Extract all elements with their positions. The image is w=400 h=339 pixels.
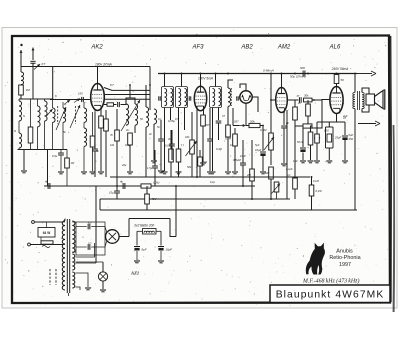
wire e2 riser: [160, 231, 162, 245]
wire IF2 bottom b: [184, 108, 186, 131]
IF3 secondary coil: [219, 89, 221, 106]
decoupling resistor 0.1M: [293, 178, 298, 189]
wire avc up: [234, 128, 236, 134]
AZ1 filament X: [109, 233, 116, 240]
svg-text:4μ: 4μ: [120, 180, 124, 184]
wire OT top: [354, 74, 356, 93]
ground IF3: [210, 172, 216, 174]
ground AL6 cath res: [314, 161, 320, 163]
wire L2 bottom: [62, 122, 64, 149]
wire B+ top link: [129, 218, 170, 220]
IF trimmer cap c: [237, 96, 239, 100]
title box: [270, 285, 390, 303]
wire AZ1 up riser: [128, 219, 130, 237]
wire pad cap: [104, 104, 107, 106]
wire r171 dn: [170, 162, 172, 177]
wire r178 dn: [178, 162, 180, 177]
wire antenna coil drop: [20, 67, 22, 73]
svg-text:K7: K7: [42, 62, 46, 66]
wire PS link: [95, 221, 97, 263]
frame right edge heavy: [393, 125, 396, 312]
svg-text:0-58mA: 0-58mA: [263, 69, 274, 73]
wire cc up: [242, 140, 244, 163]
svg-text:15μ: 15μ: [109, 191, 114, 195]
input divider resistor 20000: [28, 127, 33, 143]
wire avc dn: [234, 146, 236, 171]
bandfilter coil L3: [84, 108, 87, 122]
svg-text:7 ?: 7 ?: [181, 144, 185, 148]
AF resistor 300: [269, 167, 274, 179]
triode AM2: [276, 88, 288, 113]
filter resistor 7k: [90, 136, 95, 147]
wire diode riser: [232, 108, 234, 126]
wire coilC dn: [37, 127, 39, 150]
tuning arrow 2: [70, 105, 80, 128]
bus junction e: [251, 198, 253, 200]
band coil D: [45, 101, 48, 121]
det resistor: [226, 125, 231, 137]
wire 2M up: [251, 140, 253, 169]
wire core gnd: [68, 293, 70, 296]
rail junction x228: [227, 73, 229, 75]
bus junction f: [270, 198, 272, 200]
wire IF1 top feed: [164, 74, 166, 87]
transformer heater winding 2: [72, 272, 74, 288]
wire AZ1 out: [119, 236, 129, 238]
IF2 secondary coil: [185, 89, 187, 106]
wire rail drop 271: [270, 74, 272, 134]
AVC resistor 0.1M: [233, 134, 238, 146]
wire lower link: [19, 98, 53, 100]
ground det: [225, 172, 231, 174]
svg-text:450: 450: [349, 137, 354, 141]
wire cc2 b: [311, 126, 313, 132]
wire IF3 bot a: [212, 108, 214, 172]
IF can 2 box: [176, 87, 188, 108]
svg-text:8μF: 8μF: [142, 248, 147, 252]
bandfilter coil L1: [53, 108, 56, 122]
detector diode arrow: [239, 124, 246, 127]
wire AK2 cath res down: [100, 128, 102, 171]
svg-text:1,5μ: 1,5μ: [147, 166, 153, 170]
pot wiper arrow: [264, 137, 274, 150]
wire filter res dn: [92, 147, 94, 171]
transformer primary winding: [62, 221, 65, 290]
ground AK2 cath: [98, 172, 104, 174]
svg-text:3v2 Batte 20h: 3v2 Batte 20h: [134, 224, 155, 228]
speaker: [366, 90, 385, 110]
band switch arrow: [47, 109, 53, 116]
IF cap 50: [169, 144, 175, 146]
filter electro 8uF: [134, 247, 140, 251]
wire ant res to coils: [20, 95, 22, 99]
svg-text:10k: 10k: [185, 135, 190, 139]
wire load up: [294, 100, 296, 107]
speaker top return arrow: [357, 71, 376, 76]
wire coilC up: [37, 99, 39, 106]
wire OT down long: [354, 120, 356, 210]
wire AB2 out: [252, 97, 258, 112]
svg-text:10k: 10k: [110, 143, 115, 147]
svg-text:8μF: 8μF: [349, 133, 354, 137]
anode load 2k: [293, 107, 298, 120]
svg-text:AM2: AM2: [277, 45, 291, 51]
wire osc Lc dn: [145, 127, 147, 177]
svg-text:AF3: AF3: [191, 45, 204, 51]
wire filter res up: [92, 112, 94, 136]
dial lamp: [98, 272, 107, 281]
wire 15u up: [116, 186, 118, 191]
svg-text:4μ: 4μ: [45, 180, 49, 184]
tone pot 20k: [274, 182, 279, 192]
svg-text:50: 50: [341, 78, 345, 82]
wire screen cap: [94, 112, 96, 149]
AK2 cathode resistor: [99, 116, 104, 128]
ground AL6 grid: [308, 161, 314, 163]
svg-text:0,3M: 0,3M: [216, 147, 223, 151]
svg-text:1M: 1M: [26, 88, 31, 92]
svg-text:50k: 50k: [187, 165, 192, 169]
fuse resistor: [41, 241, 53, 244]
IF can 3 box: [210, 87, 222, 108]
wave switch K7: [34, 64, 40, 70]
junction det out: [262, 125, 264, 127]
bus junction a: [116, 185, 118, 187]
bus junction c: [175, 185, 177, 187]
bottom return bus: [100, 209, 357, 211]
IF1 primary coil: [165, 89, 167, 106]
svg-text:64 W: 64 W: [43, 231, 50, 235]
wire 2M dn: [251, 181, 253, 199]
wire L1 bottom: [52, 122, 54, 149]
bias bus: [44, 185, 255, 187]
svg-text:0,1μ: 0,1μ: [210, 180, 216, 184]
wire AB2 cath dn: [245, 103, 247, 125]
bandfilter core dashes: [58, 106, 76, 124]
wire sel b: [46, 222, 48, 228]
voltage selector box 64W: [38, 228, 55, 238]
wire pot10 dn: [191, 154, 193, 177]
wire IF1 bottom b: [170, 108, 172, 121]
rail junction x215.5: [215, 73, 217, 75]
wire coilN dn: [18, 148, 20, 150]
detector coil: [228, 88, 231, 106]
wire prim top: [63, 219, 65, 222]
wire IF2 bottom a: [178, 108, 180, 172]
ground x161: [158, 171, 164, 173]
rectifier AZ1 envelope: [106, 230, 120, 244]
primary tap dashes: [50, 269, 56, 285]
wire dec dn: [294, 189, 296, 199]
ground L4: [81, 172, 87, 174]
antenna coil: [21, 72, 24, 85]
AL6 cathode resistor 150: [315, 134, 320, 143]
wire if cap: [171, 130, 173, 144]
wire AK2 lead a: [94, 109, 96, 112]
bandfilter coil L2: [63, 108, 66, 122]
wire prim in b: [63, 244, 65, 246]
wire x150 link: [149, 67, 151, 111]
rail junction x200.5: [200, 73, 202, 75]
wire sd up: [336, 74, 338, 75]
IF trimmer cap b: [189, 96, 191, 100]
svg-text:50μ (37mA): 50μ (37mA): [290, 75, 306, 79]
output pentode AL6: [330, 87, 343, 114]
svg-text:K7: K7: [110, 83, 114, 87]
IF trimmer cap a: [159, 96, 161, 100]
wire det coil top: [228, 80, 233, 88]
IF1 secondary coil: [171, 89, 173, 106]
mains terminal b: [32, 221, 35, 224]
wire sec low b: [76, 287, 81, 290]
wire det cap dn: [218, 124, 220, 141]
wire IF3 bot b: [218, 108, 220, 121]
junction osc: [129, 84, 131, 86]
wire lamp dn: [102, 281, 104, 289]
wire bias riser: [47, 150, 49, 187]
wire coilM-N: [18, 121, 20, 133]
wire AF3 cath res dn: [202, 126, 204, 162]
wire B+ riser: [175, 186, 177, 237]
ground IF2: [176, 172, 182, 174]
osc padding cap: [118, 102, 120, 107]
field choke box: [143, 229, 157, 235]
mains wire a: [30, 244, 63, 246]
bus resistor 750: [141, 184, 151, 188]
tone pot arrow 2: [272, 184, 281, 194]
svg-text:5μF: 5μF: [255, 143, 260, 147]
output transformer secondary: [362, 93, 364, 109]
ground osc: [127, 172, 133, 174]
wire heater b: [76, 262, 97, 264]
rail junction x164.5: [164, 73, 166, 75]
wire gl dn: [310, 145, 312, 160]
filter cap 0.5u: [58, 153, 64, 155]
svg-text:M.F.-468 kHz (473 kHz): M.F.-468 kHz (473 kHz): [302, 278, 359, 285]
antenna terminal dot: [20, 44, 22, 46]
wire bottom link row: [18, 149, 68, 151]
osc series resistor: [107, 103, 114, 106]
wire r200 up: [199, 150, 201, 157]
wire r171 up: [170, 130, 172, 149]
svg-text:Blaupunkt 4W67MK: Blaupunkt 4W67MK: [276, 290, 385, 301]
heater bus: [100, 198, 290, 200]
AF3 cathode resistor: [201, 115, 206, 126]
svg-text:25μF: 25μF: [334, 136, 341, 140]
ground heater: [85, 288, 91, 290]
wire AF3 anode: [200, 74, 202, 87]
screen resistor 10k: [104, 119, 109, 131]
transformer heater winding 1: [72, 254, 74, 270]
wire osc Lb dn: [134, 126, 136, 134]
wire 50k up: [307, 100, 309, 104]
wire heater a2: [76, 261, 104, 263]
wire PS riser left: [95, 186, 97, 221]
svg-text:267: 267: [233, 120, 239, 124]
svg-text:0,1M: 0,1M: [313, 179, 320, 183]
wire IF1 bottom a: [164, 108, 166, 172]
tuning arrow 1: [56, 107, 66, 130]
rail junction x281.5: [281, 73, 283, 75]
cap 15u: [114, 191, 120, 193]
wire AL6 cath down: [336, 114, 338, 123]
wire screen down: [105, 131, 107, 177]
svg-text:AK2: AK2: [90, 45, 103, 51]
svg-text:0,5: 0,5: [175, 117, 179, 121]
wire OT bottom: [354, 109, 356, 120]
volume pot 0.5M: [269, 133, 274, 150]
output transformer core: [358, 91, 360, 110]
wire sec low a: [76, 273, 89, 287]
wire 150 dn: [316, 143, 318, 160]
svg-text:K: K: [55, 94, 57, 98]
ground 8uF: [134, 261, 140, 263]
wire AL6 anode: [336, 84, 338, 87]
scan noise speckle: [5, 30, 389, 306]
wire 8u up: [344, 122, 346, 135]
wire r200 dn: [199, 166, 201, 177]
svg-text:240V 56mA: 240V 56mA: [331, 67, 349, 71]
osc grid resistor 7k: [115, 130, 120, 141]
detector load 50k: [249, 123, 260, 127]
wire K7 line: [104, 88, 150, 91]
IF3 primary coil: [213, 89, 215, 106]
svg-text:1997: 1997: [339, 262, 351, 268]
wire heater a: [76, 243, 95, 257]
rail junction x295: [294, 73, 296, 75]
antenna arrow 2: [32, 48, 35, 61]
svg-text:50k: 50k: [250, 120, 255, 124]
Anubis cat logo: [306, 243, 325, 275]
svg-text:2M: 2M: [246, 173, 252, 177]
wire 8u dn: [344, 140, 346, 160]
ground 8uF450: [342, 161, 348, 163]
band coil C: [38, 106, 41, 127]
wire AM2 cath2: [286, 110, 288, 199]
svg-text:150: 150: [324, 129, 329, 133]
wire gc dn: [302, 153, 304, 161]
wire pad cap b: [121, 103, 127, 106]
wire NTC dn: [311, 196, 313, 210]
ground lamp: [100, 290, 106, 292]
antenna resistor 1M: [19, 85, 24, 95]
svg-text:180v 27mA: 180v 27mA: [95, 63, 112, 67]
wire cap05 dn: [60, 155, 62, 171]
svg-text:0,1μ: 0,1μ: [125, 143, 131, 147]
AF3 resistor b: [176, 149, 181, 162]
osc padder coil L4: [84, 128, 87, 146]
rectifier section box: [76, 222, 105, 255]
transformer core: [67, 219, 69, 293]
wire coilM top: [18, 99, 20, 101]
wire caps to tube a: [91, 227, 107, 234]
wire filter top row: [50, 99, 91, 101]
wire 15u dn: [116, 193, 118, 199]
wire cap a lead: [76, 226, 87, 228]
pentode AK2: [91, 84, 105, 111]
osc resistor 20k: [128, 133, 133, 145]
wire el up: [262, 145, 264, 151]
HV cap b: [88, 244, 90, 250]
ground filter res: [90, 172, 96, 174]
svg-text:AB2: AB2: [240, 45, 253, 51]
wire res1M dn: [66, 168, 68, 186]
cathode electro 10uF: [260, 152, 266, 156]
wire HV top: [72, 221, 76, 223]
wire screen cap dn: [94, 152, 96, 178]
wire box dn: [328, 148, 330, 160]
bus junction h: [196, 176, 198, 178]
svg-text:150: 150: [78, 92, 83, 96]
duodiode AB2 envelope: [240, 91, 252, 103]
AF3 bypass cap: [207, 139, 213, 141]
bias feed resistor: [303, 124, 312, 128]
wire AM2 anode out: [287, 99, 298, 101]
wire NTC drop: [311, 177, 313, 185]
wire cap05 up: [60, 150, 62, 153]
wire el dn: [262, 156, 264, 171]
wire choke out: [156, 230, 161, 232]
antenna coil M: [19, 101, 22, 121]
wire B+ down link: [170, 219, 176, 237]
wire am2cap dn: [283, 129, 285, 164]
tone pot 10k: [190, 140, 195, 154]
wire tpot dn: [276, 192, 278, 199]
detector coil core: [231, 88, 233, 106]
wire AB2 top: [240, 84, 246, 91]
AL6 grid resistor: [308, 132, 313, 145]
wire AK2 anode up: [97, 67, 99, 84]
wire g4 line: [104, 98, 150, 100]
grid junction 271: [270, 99, 272, 101]
ground AF3 byp: [207, 172, 213, 174]
antenna series cap: [30, 61, 35, 63]
svg-text:0,5μM: 0,5μM: [233, 158, 241, 162]
wire res1M up: [66, 150, 68, 159]
wire box up: [328, 122, 330, 127]
wire osc join top line: [129, 85, 131, 98]
svg-text:AZ1: AZ1: [130, 271, 139, 276]
filter resistor 1M: [65, 158, 70, 168]
fuse wave: [42, 246, 50, 248]
wire pad mid: [114, 104, 117, 106]
wire AM2 anode: [281, 74, 283, 88]
screen bypass cap: [92, 149, 98, 151]
svg-text:0,1: 0,1: [287, 173, 291, 177]
svg-text:5 ?: 5 ?: [88, 242, 92, 246]
NTC resistor: [309, 185, 314, 196]
electro 8uF450: [342, 136, 348, 140]
tone pot arrow: [186, 141, 197, 156]
junction OT: [354, 73, 356, 75]
wire AF3 cath dn: [203, 106, 205, 115]
wire osc res dn: [129, 145, 131, 171]
switch contact b: [74, 99, 80, 103]
ground 25uF: [326, 161, 332, 163]
wire osc cap dn: [160, 142, 162, 171]
svg-text:16μF: 16μF: [166, 248, 173, 252]
wire spk bottom: [362, 105, 369, 112]
bus junction d: [242, 185, 244, 187]
wire load dn: [294, 120, 296, 178]
speaker lower return arrow: [358, 121, 380, 126]
wire AM2 grid: [271, 99, 276, 101]
wire det res up: [227, 107, 229, 126]
wire IF2 top feed: [181, 74, 183, 87]
B+ supply rail: [158, 73, 357, 75]
wire HV mid: [72, 251, 76, 253]
svg-text:N: N: [23, 114, 25, 118]
